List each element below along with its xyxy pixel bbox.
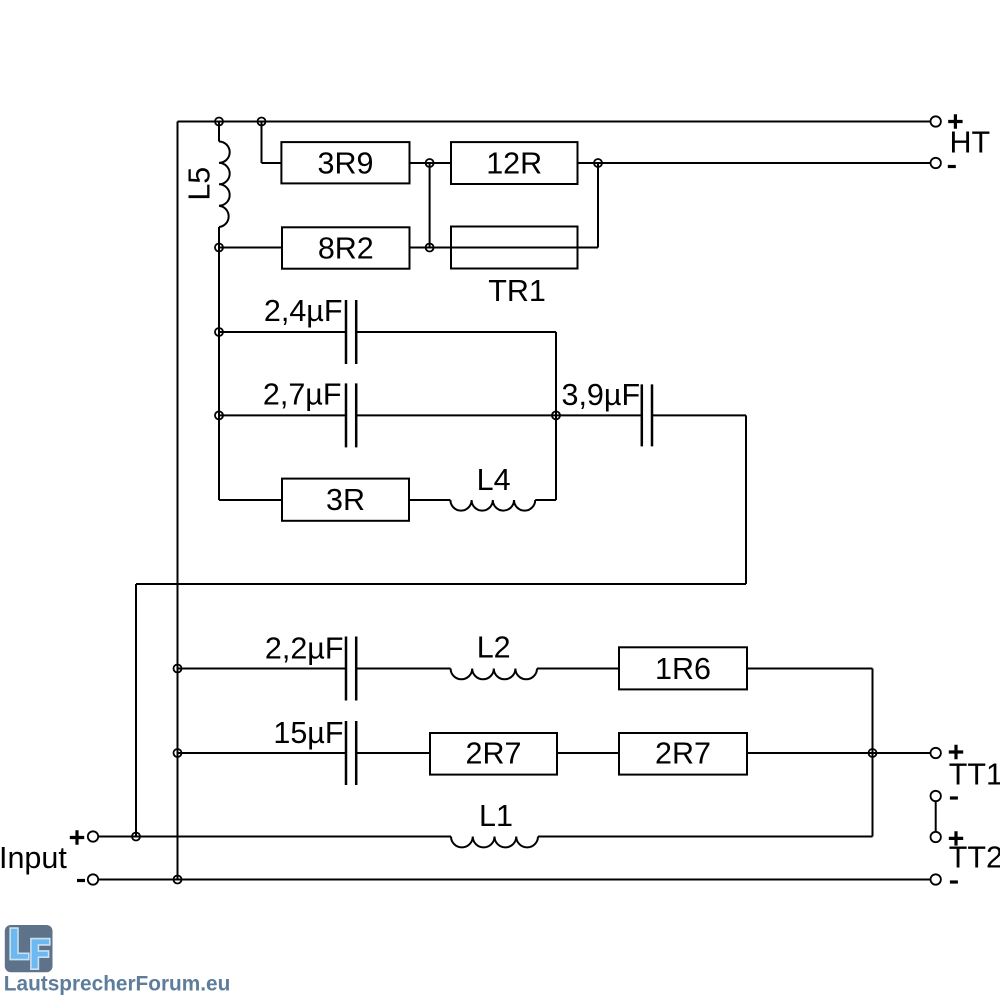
svg-text:2,2µF: 2,2µF xyxy=(265,631,344,665)
svg-text:L5: L5 xyxy=(182,167,216,201)
svg-text:2,4µF: 2,4µF xyxy=(264,294,343,328)
svg-text:L4: L4 xyxy=(477,463,511,497)
svg-text:1R6: 1R6 xyxy=(655,652,711,686)
svg-text:8R2: 8R2 xyxy=(318,231,374,265)
svg-text:2,7µF: 2,7µF xyxy=(263,377,342,411)
svg-text:TR1: TR1 xyxy=(488,274,546,308)
svg-text:HT: HT xyxy=(950,126,991,160)
svg-text:12R: 12R xyxy=(486,147,542,181)
svg-text:2R7: 2R7 xyxy=(466,736,522,770)
svg-text:2R7: 2R7 xyxy=(655,736,711,770)
svg-text:TT1: TT1 xyxy=(949,757,1000,791)
svg-text:L2: L2 xyxy=(477,631,511,665)
svg-text:3R9: 3R9 xyxy=(318,147,374,181)
svg-text:3R: 3R xyxy=(326,483,365,517)
svg-text:L1: L1 xyxy=(479,799,513,833)
svg-text:LautsprecherForum.eu: LautsprecherForum.eu xyxy=(4,973,231,996)
svg-text:TT2: TT2 xyxy=(949,841,1000,875)
svg-text:15µF: 15µF xyxy=(273,716,343,750)
svg-text:3,9µF: 3,9µF xyxy=(562,378,641,412)
svg-text:Input: Input xyxy=(0,841,67,875)
